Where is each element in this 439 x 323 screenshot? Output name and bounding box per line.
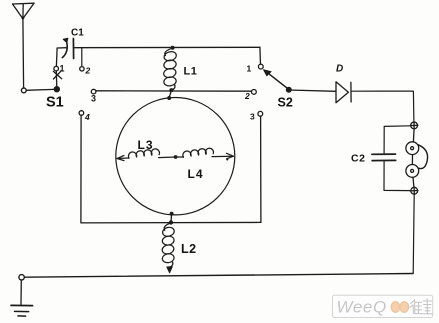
S2 contact 3 bbox=[258, 111, 263, 116]
wire node to S1 pivot bbox=[26, 88, 54, 91]
node L1 top junction bbox=[171, 46, 175, 50]
wire L1 bottom to drum top bbox=[169, 91, 171, 98]
inductor L4 bbox=[183, 148, 214, 157]
svg-text:C2: C2 bbox=[351, 153, 365, 165]
switch S2 (pivot and wiper arm with arrow to contact 1) bbox=[263, 70, 291, 93]
svg-text:D: D bbox=[336, 64, 343, 75]
node cross rail junction bbox=[169, 220, 173, 224]
inductor L1 bbox=[163, 48, 178, 90]
S2 contact 2 bbox=[252, 90, 257, 95]
wire ground bus bbox=[24, 274, 413, 278]
wire top net (C1 to S2 contact 1 corner) bbox=[74, 46, 260, 48]
svg-text:WeeQ: WeeQ bbox=[337, 298, 387, 317]
node drum bottom junction bbox=[170, 212, 174, 216]
svg-text:S1: S1 bbox=[46, 95, 64, 111]
inductor L2 bbox=[161, 223, 175, 267]
wire S2 contact 3 down to cross rail bbox=[260, 116, 262, 222]
wire S1 contact 1 up to C1 bbox=[55, 48, 58, 66]
svg-text:3: 3 bbox=[250, 112, 255, 122]
capacitor C2 with branch wires bbox=[372, 126, 411, 191]
svg-text:C1: C1 bbox=[71, 28, 84, 39]
watermark WeeQoo weiku box bbox=[333, 295, 433, 317]
wire S1 contact 4 down and cross rail to S2 contact 3 bbox=[81, 115, 261, 223]
wire axis left segment bbox=[117, 157, 129, 160]
wire S2 pivot to diode anode bbox=[289, 90, 336, 91]
arrow left (axis) bbox=[117, 155, 124, 160]
wire mid net (S1 contact 3 to S2 contact 2) bbox=[96, 90, 251, 92]
terminal T2 (circled cross) bbox=[411, 187, 419, 194]
inductor L3 bbox=[128, 149, 159, 158]
node L3/L4 center junction bbox=[174, 155, 178, 159]
svg-text:1: 1 bbox=[60, 64, 65, 74]
diode D bbox=[336, 82, 351, 103]
earphone BE (two cups with cord arc) bbox=[406, 129, 428, 187]
switch S1 (pivot, wiper arm to contact 1) bbox=[53, 66, 61, 92]
S1 contact 2 bbox=[80, 67, 84, 71]
svg-text:1: 1 bbox=[247, 64, 252, 74]
arrow L2 to ground bus bbox=[167, 267, 173, 273]
svg-text:L4: L4 bbox=[188, 167, 204, 181]
capacitor C1 (variable, curved plate with arrow + straight plate) bbox=[57, 38, 74, 58]
svg-text:3: 3 bbox=[91, 94, 96, 104]
arrow right (axis) bbox=[227, 153, 234, 159]
svg-text:L2: L2 bbox=[181, 242, 197, 256]
node antenna/S1 bbox=[21, 88, 26, 93]
wire antenna feeder bbox=[22, 19, 25, 88]
svg-text:2: 2 bbox=[244, 91, 250, 101]
antenna bbox=[13, 3, 35, 19]
svg-text:L1: L1 bbox=[184, 66, 198, 78]
wire center to L4 bbox=[176, 156, 184, 158]
node drum top junction bbox=[167, 96, 171, 100]
node L1 bottom junction bbox=[169, 88, 173, 92]
svg-text:S2: S2 bbox=[278, 96, 293, 110]
node ground bus left terminal bbox=[19, 275, 24, 280]
terminal T1 (circled cross) bbox=[410, 122, 418, 129]
ground bbox=[11, 280, 33, 316]
svg-text:4: 4 bbox=[84, 112, 90, 122]
S1 contact 4 bbox=[79, 111, 84, 116]
wire right side down to ground bus bbox=[413, 194, 414, 273]
svg-text:L3: L3 bbox=[138, 138, 154, 152]
node speck near L4 end bbox=[226, 158, 228, 160]
wire drum bottom to cross rail bbox=[170, 214, 173, 223]
tuning drum circle (rotor housing L3/L4) bbox=[116, 98, 235, 215]
svg-text:2: 2 bbox=[85, 66, 91, 76]
wire S1 contact 2 up to top net bbox=[81, 48, 83, 67]
S1 contact 3 bbox=[91, 89, 96, 94]
wire axis right segment bbox=[212, 155, 233, 157]
wire axis center segment bbox=[159, 156, 176, 159]
wire diode cathode to right corner down bbox=[351, 91, 414, 122]
S2 contact 1 bbox=[258, 64, 263, 69]
wire top net corner down to S2 contact 1 bbox=[259, 47, 262, 64]
